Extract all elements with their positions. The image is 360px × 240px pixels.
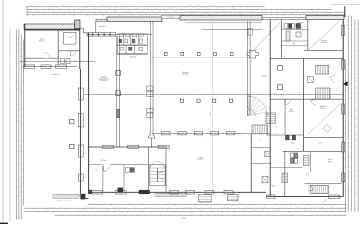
svg-text:3.85: 3.85 — [344, 64, 346, 67]
svg-text:2.625: 2.625 — [167, 93, 170, 95]
svg-text:Lager: Lager — [199, 157, 203, 159]
NE big room diagonal — [309, 20, 341, 49]
pier x118 wall 1 — [116, 71, 121, 76]
closet strip divider 1 — [251, 147, 270, 149]
svg-text:6.38: 6.38 — [134, 207, 137, 209]
dim line bottom row3 — [24, 210, 346, 212]
svg-text:Büro: Büro — [319, 143, 322, 145]
label NE room — [293, 43, 296, 45]
window right south 2 — [329, 195, 340, 198]
svg-text:4.075: 4.075 — [17, 145, 19, 148]
svg-text:1.50: 1.50 — [28, 207, 31, 209]
wall segment x118 — [116, 109, 119, 117]
svg-text:1.50: 1.50 — [197, 8, 200, 10]
svg-text:4.075: 4.075 — [103, 203, 106, 205]
svg-text:5.45: 5.45 — [344, 95, 346, 98]
svg-text:1.24: 1.24 — [339, 214, 342, 216]
dim riser top right — [344, 6, 346, 17]
divider x310 — [310, 151, 312, 172]
window center north 1 — [103, 145, 114, 148]
svg-text:5.45: 5.45 — [234, 13, 237, 15]
svg-text:1.76: 1.76 — [249, 5, 252, 7]
svg-text:3.10: 3.10 — [304, 210, 307, 212]
axis line upper hall — [151, 57, 250, 59]
stair cluster fixtures — [119, 39, 122, 43]
hall column 2 — [197, 99, 200, 102]
svg-text:2.625: 2.625 — [241, 214, 244, 216]
svg-text:4.76: 4.76 — [120, 8, 123, 10]
winder gate fan hall SE — [247, 96, 267, 116]
window east 3 — [342, 104, 345, 114]
left block inner north face — [25, 29, 80, 31]
fold mark bottom left — [0, 222, 8, 224]
svg-text:2.45: 2.45 — [247, 207, 250, 209]
window hall north 5 — [111, 33, 116, 37]
svg-text:7.90: 7.90 — [326, 203, 329, 205]
svg-text:7.90: 7.90 — [180, 214, 183, 216]
svg-text:1.50: 1.50 — [177, 5, 180, 7]
svg-text:12.5: 12.5 — [217, 8, 220, 10]
svg-text:1.76: 1.76 — [204, 93, 207, 95]
svg-text:1.26: 1.26 — [275, 133, 278, 135]
dim line right col1 — [347, 15, 349, 211]
svg-text:5.45: 5.45 — [78, 8, 81, 10]
svg-text:12.5: 12.5 — [227, 214, 230, 216]
north wall inner line east — [186, 22, 262, 24]
svg-text:3.85: 3.85 — [30, 5, 33, 7]
hall upper column 2 — [181, 52, 184, 55]
hatched north wall thin start — [96, 19, 107, 21]
dim line left border — [9, 29, 11, 222]
svg-text:7.90: 7.90 — [68, 13, 71, 15]
svg-text:7.90: 7.90 — [151, 5, 154, 7]
svg-text:2.10: 2.10 — [37, 11, 40, 13]
window left block south 1 — [24, 65, 35, 68]
hall column 3 — [213, 99, 216, 102]
west wall left block — [24, 24, 26, 67]
hall column 4 — [230, 99, 233, 102]
window wing 2 — [78, 114, 83, 127]
label office — [39, 39, 46, 43]
svg-text:12.5: 12.5 — [113, 13, 116, 15]
wc cluster B — [291, 153, 294, 158]
svg-text:3.85: 3.85 — [95, 210, 98, 212]
svg-text:1.24: 1.24 — [107, 210, 110, 212]
svg-text:7.90: 7.90 — [350, 171, 352, 174]
yard column 2 — [70, 144, 75, 149]
svg-text:19.1: 19.1 — [207, 136, 210, 138]
svg-text:1.76: 1.76 — [353, 86, 355, 89]
svg-text:2.10: 2.10 — [353, 175, 355, 178]
window hall north 3 — [99, 33, 104, 37]
hall wall x151 funnel — [149, 135, 152, 147]
svg-text:1.135: 1.135 — [288, 203, 291, 205]
window hall north 1 — [87, 33, 92, 37]
NE block dividers — [281, 29, 307, 31]
hatched north boundary wall main west — [107, 17, 162, 21]
dark door center south 2 — [118, 188, 124, 193]
wing west wall — [79, 69, 81, 194]
svg-text:3.10: 3.10 — [153, 203, 156, 205]
svg-text:12.5: 12.5 — [315, 207, 318, 209]
pavement hatch center — [155, 193, 188, 196]
svg-text:5.45: 5.45 — [265, 93, 268, 95]
svg-text:1.50: 1.50 — [207, 214, 210, 216]
window center north 3 — [158, 145, 169, 148]
svg-text:6.38: 6.38 — [22, 134, 24, 137]
lab inner box — [64, 32, 77, 44]
dim line left col4 — [22, 39, 24, 205]
svg-text:1.76: 1.76 — [166, 13, 169, 15]
svg-text:2.45: 2.45 — [347, 73, 349, 76]
svg-text:12.5: 12.5 — [261, 210, 264, 212]
svg-text:2.45: 2.45 — [17, 84, 19, 87]
divider x285 — [284, 99, 286, 135]
stair cluster outline — [118, 34, 148, 54]
svg-text:1.135: 1.135 — [79, 11, 82, 13]
svg-text:4.075: 4.075 — [158, 11, 161, 13]
wall y151 — [283, 150, 342, 152]
label buero row b — [319, 143, 322, 145]
label SE room — [320, 106, 326, 110]
svg-text:2.625: 2.625 — [357, 125, 359, 128]
svg-text:6.38: 6.38 — [250, 11, 253, 13]
svg-text:3.10: 3.10 — [45, 210, 48, 212]
svg-text:2.10: 2.10 — [94, 8, 97, 10]
svg-text:12.5: 12.5 — [347, 141, 349, 144]
door swing south exit — [322, 199, 327, 202]
svg-text:3.85: 3.85 — [22, 149, 24, 152]
svg-text:1.50: 1.50 — [347, 110, 349, 113]
label right buero a — [289, 109, 295, 113]
window hall south 4 — [210, 132, 218, 135]
svg-text:5.45: 5.45 — [175, 207, 178, 209]
svg-text:2.10: 2.10 — [22, 190, 24, 193]
svg-text:3.10: 3.10 — [22, 90, 24, 93]
wall y135 left part — [266, 134, 303, 136]
exterior stair driveway lower — [252, 125, 268, 134]
svg-text:4.76: 4.76 — [68, 11, 71, 13]
svg-text:1.24: 1.24 — [353, 145, 355, 148]
hall wall x118 west line — [116, 36, 118, 147]
svg-text:1.24: 1.24 — [215, 13, 218, 15]
svg-text:1.24: 1.24 — [22, 164, 24, 167]
interior dim row yard — [19, 60, 95, 62]
label hall east bay — [182, 71, 189, 76]
SE big room diagonal — [308, 104, 341, 135]
svg-text:2.625: 2.625 — [188, 11, 191, 13]
svg-text:2.625: 2.625 — [353, 54, 355, 57]
room divider office east — [57, 31, 59, 65]
stairwell west wall — [147, 147, 149, 192]
dim line bottom row4 — [54, 214, 346, 216]
wall y167 left — [270, 167, 302, 169]
svg-text:1.50: 1.50 — [94, 13, 97, 15]
right wing column 2 — [278, 85, 283, 90]
NE wc fixtures — [289, 24, 292, 29]
svg-text:1.50: 1.50 — [242, 210, 245, 212]
dim line right col5 — [344, 59, 346, 211]
svg-text:2.45: 2.45 — [350, 156, 352, 159]
svg-text:1.135: 1.135 — [166, 210, 169, 212]
svg-text:3.85: 3.85 — [58, 214, 61, 216]
window hall south 1 — [162, 132, 170, 135]
svg-text:3.10: 3.10 — [347, 183, 349, 186]
svg-text:3.85: 3.85 — [317, 8, 320, 10]
label NE big room — [321, 40, 328, 44]
svg-text:7.90: 7.90 — [257, 207, 260, 209]
center block north wall — [89, 146, 166, 148]
svg-text:2.45: 2.45 — [201, 210, 204, 212]
main switchback stair — [150, 161, 165, 185]
svg-text:1.24: 1.24 — [20, 76, 22, 79]
svg-text:Büro: Büro — [40, 39, 43, 41]
hall wall x151 east line — [152, 21, 154, 135]
svg-text:2.625: 2.625 — [129, 203, 132, 205]
hall wall x118 east line — [119, 36, 121, 147]
NE big room west wall — [307, 20, 309, 51]
hall upper column 3 — [197, 52, 200, 55]
svg-text:1.76: 1.76 — [22, 103, 24, 106]
label lager small — [271, 184, 275, 187]
hall wall x151 west line — [149, 21, 151, 135]
svg-text:3.85: 3.85 — [265, 11, 268, 13]
door swing stair south — [308, 186, 313, 191]
right wing west wall — [269, 19, 271, 196]
svg-text:1.50: 1.50 — [92, 203, 95, 205]
stair core upper — [316, 65, 329, 74]
svg-text:6.38: 6.38 — [353, 114, 355, 117]
wall y99 right wing — [270, 98, 343, 100]
label hall west bay — [99, 76, 110, 83]
dim line right col2 — [350, 15, 352, 211]
cross pier hall east — [247, 50, 258, 58]
svg-text:12.5: 12.5 — [22, 55, 24, 58]
svg-text:2.45: 2.45 — [154, 8, 157, 10]
window east 1 — [342, 26, 345, 36]
svg-text:4.075: 4.075 — [207, 8, 210, 10]
window left block south 3 — [56, 65, 67, 68]
dark door center south — [139, 190, 150, 194]
svg-text:2.10: 2.10 — [186, 207, 189, 209]
label flur small — [306, 174, 309, 176]
svg-text:1.76: 1.76 — [99, 207, 102, 209]
svg-text:4.76: 4.76 — [276, 13, 279, 15]
NE block west wall — [280, 20, 282, 59]
svg-text:1.76: 1.76 — [17, 206, 19, 209]
center room fixtures — [125, 168, 129, 173]
svg-text:Werkhalle: Werkhalle — [320, 106, 326, 108]
window center south 2 — [115, 191, 126, 194]
divider center rooms 2 — [123, 165, 125, 193]
label box on north wall — [162, 15, 181, 18]
svg-text:6.38: 6.38 — [228, 93, 231, 95]
exterior stair south 2 — [228, 195, 238, 201]
window center south 1 — [92, 191, 103, 194]
room divider office south — [25, 57, 44, 59]
svg-text:1.76: 1.76 — [168, 203, 171, 205]
niche hall east wall — [248, 29, 252, 36]
stair cluster top windows — [120, 34, 124, 36]
window hall north 2 — [93, 33, 98, 37]
window east 4 — [342, 142, 345, 152]
svg-text:3.10: 3.10 — [193, 93, 196, 95]
svg-text:2.45: 2.45 — [344, 166, 346, 169]
svg-text:3.10: 3.10 — [17, 191, 19, 194]
svg-text:2.10: 2.10 — [30, 60, 33, 62]
svg-text:2.10: 2.10 — [127, 210, 130, 212]
NE ladder stair — [286, 31, 290, 41]
dim line top row1 — [26, 5, 264, 7]
svg-text:4.075: 4.075 — [188, 5, 191, 7]
yard column 1 — [70, 119, 75, 124]
divider x284 — [284, 151, 286, 196]
wing south corner — [80, 194, 85, 200]
svg-text:Waschr.: Waschr. — [310, 94, 315, 96]
svg-text:1.135: 1.135 — [17, 56, 19, 59]
svg-text:4.76: 4.76 — [61, 60, 64, 62]
door swing corridor a — [285, 99, 290, 105]
hatched north boundary wall main east — [180, 16, 262, 20]
window hall south 5 — [227, 132, 235, 135]
stair cluster south wall — [118, 53, 148, 55]
svg-text:2.10: 2.10 — [250, 13, 253, 15]
svg-text:1.135: 1.135 — [290, 13, 293, 15]
svg-text:5.45: 5.45 — [88, 214, 91, 216]
window hall south 3 — [194, 132, 202, 135]
window wing 1 — [78, 88, 83, 100]
svg-text:12.5: 12.5 — [50, 207, 53, 209]
svg-text:2.625: 2.625 — [128, 13, 131, 15]
door swing stairwell to lager — [157, 172, 165, 180]
svg-text:1.135: 1.135 — [350, 121, 352, 124]
left block north wall bottom edge — [24, 28, 80, 30]
svg-text:2.45: 2.45 — [164, 214, 167, 216]
svg-text:2.625: 2.625 — [15, 84, 17, 87]
south wall left block — [23, 66, 77, 68]
closet strip divider 2 — [251, 163, 270, 165]
hatched north wall left block — [24, 24, 75, 29]
svg-text:4.075: 4.075 — [217, 214, 220, 216]
window south room 1 — [170, 191, 179, 194]
svg-text:12.5: 12.5 — [196, 5, 199, 7]
chimney cluster on x151 wall b — [147, 108, 153, 112]
stairwell east wall — [165, 147, 167, 192]
hall upper column 5 — [230, 52, 233, 55]
svg-text:4.075: 4.075 — [39, 207, 42, 209]
svg-text:4.76: 4.76 — [274, 203, 277, 205]
svg-text:2.625: 2.625 — [330, 207, 333, 209]
svg-text:2.625: 2.625 — [17, 171, 19, 174]
svg-text:0.885: 0.885 — [296, 149, 299, 151]
svg-text:7.90: 7.90 — [115, 11, 118, 13]
hall upper column 1 — [164, 52, 167, 55]
svg-text:4.075: 4.075 — [253, 210, 256, 212]
svg-text:Lager: Lager — [94, 170, 98, 172]
svg-text:3.10: 3.10 — [215, 11, 218, 13]
svg-text:5.45: 5.45 — [350, 73, 352, 76]
svg-text:1.50: 1.50 — [350, 197, 352, 200]
stair south right wing — [310, 185, 328, 193]
svg-text:7.90: 7.90 — [93, 93, 96, 95]
svg-text:1.135: 1.135 — [225, 207, 228, 209]
svg-text:3.85: 3.85 — [48, 8, 51, 10]
svg-text:1.135: 1.135 — [20, 150, 22, 153]
svg-text:vorhandenes Gelände ca. 1:20: vorhandenes Gelände ca. 1:20 — [56, 200, 73, 202]
window south room 2 — [186, 191, 195, 194]
svg-text:1.24: 1.24 — [327, 8, 330, 10]
svg-text:4.075: 4.075 — [296, 207, 299, 209]
svg-text:1.24: 1.24 — [42, 5, 45, 7]
hall north wall — [87, 33, 153, 35]
svg-text:Maschinenraum: Maschinenraum — [99, 78, 110, 80]
svg-text:3.85: 3.85 — [327, 214, 330, 216]
svg-text:4.76: 4.76 — [325, 11, 328, 13]
wc fixtures left block — [61, 59, 65, 64]
svg-text:7.90: 7.90 — [17, 96, 19, 99]
door swing office — [44, 53, 50, 59]
svg-text:2.45: 2.45 — [136, 5, 139, 7]
label lab — [68, 37, 72, 39]
svg-text:3.85: 3.85 — [200, 203, 203, 205]
step wall pier to corridor — [80, 28, 84, 30]
svg-text:2.625: 2.625 — [276, 210, 279, 212]
svg-text:Magazin: Magazin — [321, 40, 327, 42]
svg-text:1.76: 1.76 — [226, 11, 229, 13]
window hall north 4 — [105, 33, 110, 37]
dim line left col3 — [20, 34, 22, 219]
diagonal gate line — [251, 23, 281, 53]
ramp hatch — [53, 194, 81, 198]
svg-text:2.45: 2.45 — [310, 13, 313, 15]
svg-text:7.90: 7.90 — [326, 13, 329, 15]
svg-text:4.76: 4.76 — [347, 35, 349, 38]
hall south wall — [152, 132, 248, 134]
svg-text:4.76: 4.76 — [350, 110, 352, 113]
dim line bottom row2 — [24, 207, 346, 209]
svg-text:4.76: 4.76 — [344, 126, 346, 129]
pier x118 wall 2 — [116, 91, 121, 96]
svg-text:7.90: 7.90 — [344, 185, 346, 188]
window center north 2 — [128, 145, 139, 148]
fixture box stair core — [308, 76, 314, 82]
svg-text:1.50: 1.50 — [20, 209, 22, 212]
lab south wall — [58, 50, 80, 52]
svg-text:3.10: 3.10 — [353, 77, 355, 80]
dim line left col2 — [17, 29, 19, 219]
svg-text:4.075: 4.075 — [15, 56, 17, 59]
svg-text:3.85: 3.85 — [353, 126, 355, 129]
svg-text:1.135: 1.135 — [344, 141, 346, 144]
svg-text:3.85: 3.85 — [243, 93, 246, 95]
svg-text:1.24: 1.24 — [59, 8, 62, 10]
svg-text:6.38: 6.38 — [190, 203, 193, 205]
svg-text:3.10: 3.10 — [156, 13, 159, 15]
driveway stair wall — [248, 133, 270, 135]
window south room 4 — [224, 191, 233, 194]
label south room — [197, 157, 204, 161]
svg-text:2.76: 2.76 — [123, 59, 126, 61]
door swing center room — [103, 165, 110, 172]
dim line top row2 — [26, 8, 332, 10]
label driveway — [262, 75, 268, 78]
svg-text:4.76: 4.76 — [353, 201, 355, 204]
svg-text:1.50: 1.50 — [139, 11, 142, 13]
wall y50 NE — [304, 49, 343, 51]
stair core lower — [316, 88, 330, 99]
svg-text:1.135: 1.135 — [134, 8, 137, 10]
svg-text:1.135: 1.135 — [144, 214, 147, 216]
